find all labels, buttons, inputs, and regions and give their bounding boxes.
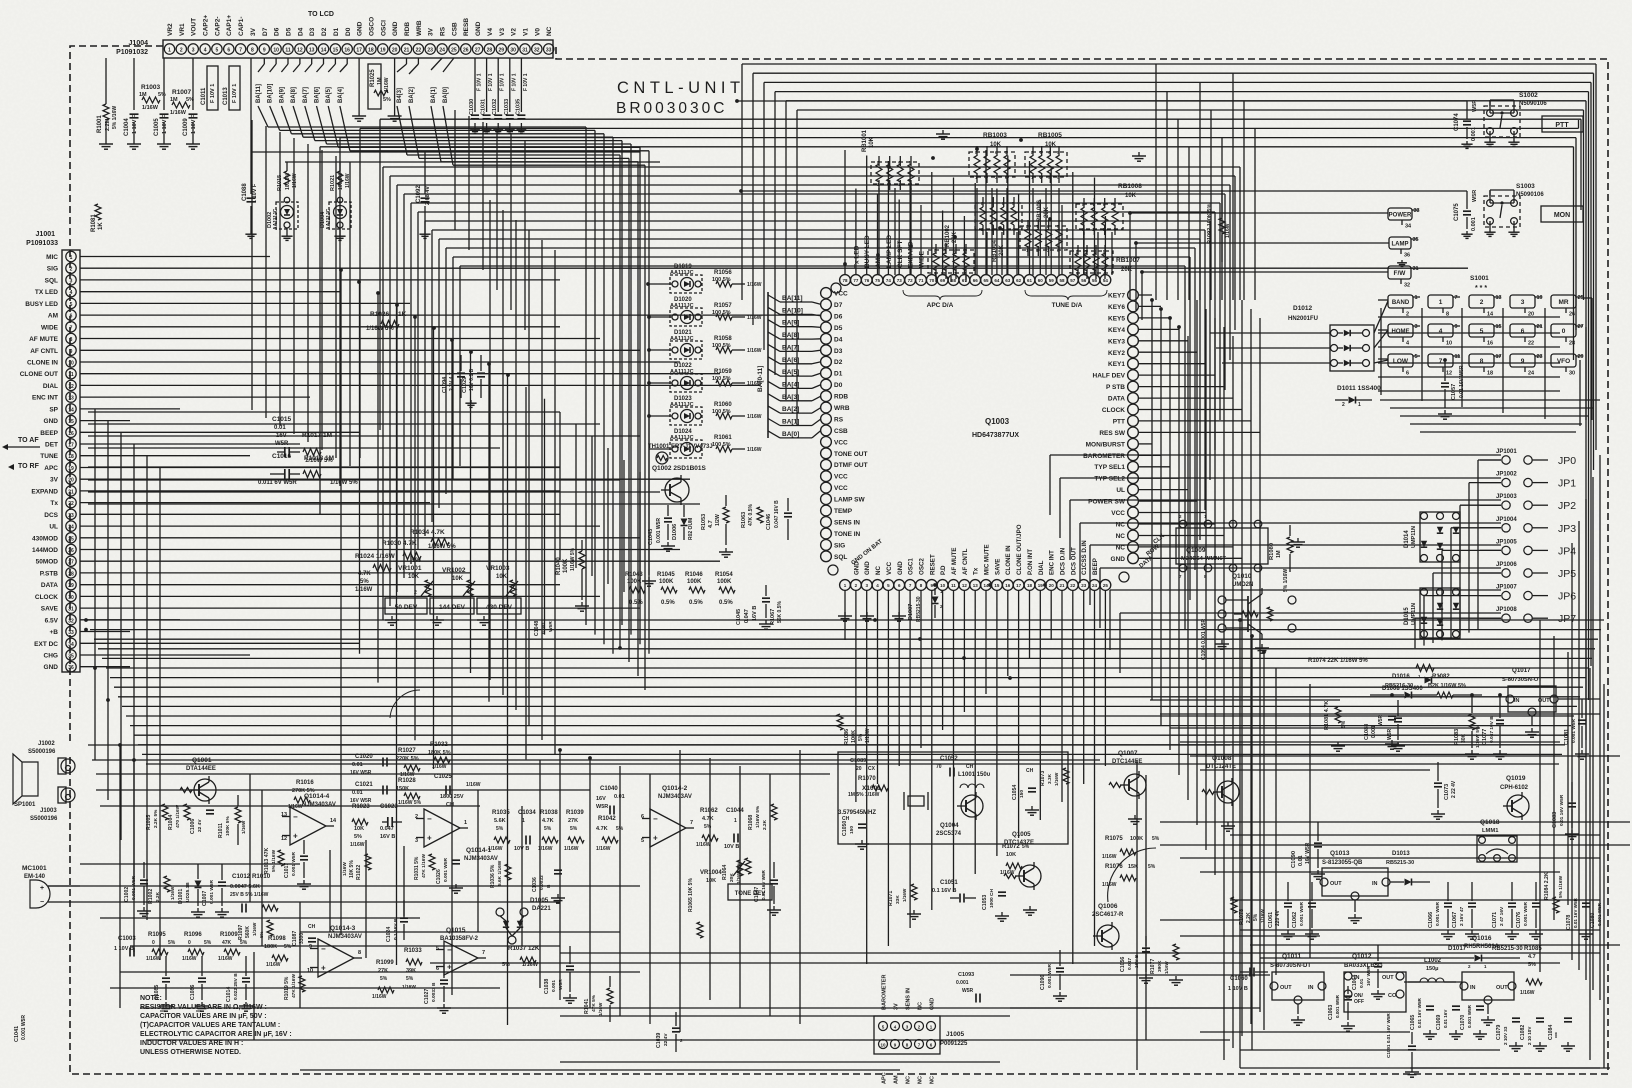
svg-text:1/16W: 1/16W: [170, 110, 187, 116]
svg-text:D1007: D1007: [908, 604, 914, 620]
wire: [524, 140, 526, 330]
svg-text:C1035: C1035: [515, 99, 521, 115]
wire: [80, 420, 130, 422]
wire: [1414, 618, 1416, 648]
svg-text:R1062: R1062: [700, 808, 718, 814]
svg-text:2: 2: [1342, 402, 1345, 408]
wire: [300, 1069, 900, 1071]
svg-text:RDB: RDB: [834, 394, 848, 401]
svg-text:CHG: CHG: [44, 653, 58, 660]
ground pin20: [394, 58, 396, 112]
wire: [340, 137, 1576, 139]
svg-text:F 10V 1: F 10V 1: [477, 73, 483, 91]
svg-text:F 10V 1: F 10V 1: [488, 73, 494, 91]
J1004 pin 31 V1: [520, 44, 530, 54]
svg-text:HALF DEV: HALF DEV: [1093, 373, 1126, 380]
svg-text:0.001 W5R: 0.001 W5R: [443, 857, 449, 882]
wire: [1251, 636, 1253, 1050]
svg-text:0.001 W5R: 0.001 W5R: [209, 879, 215, 904]
wire rails under connector: [251, 151, 640, 153]
svg-text:GND: GND: [357, 21, 364, 36]
wire: [1433, 572, 1501, 574]
svg-text:C1082: C1082: [1520, 1025, 1526, 1040]
svg-text:3: 3: [192, 48, 195, 54]
svg-text:77: 77: [853, 278, 859, 283]
svg-text:GND: GND: [44, 664, 59, 671]
wire: [88, 411, 560, 413]
svg-text:BA[8]: BA[8]: [291, 87, 297, 103]
svg-text:C1CSS D.IN: C1CSS D.IN: [1081, 540, 1088, 575]
svg-text:1: 1: [1358, 402, 1361, 408]
wire: [1595, 64, 1597, 450]
svg-text:100K: 100K: [1130, 836, 1143, 842]
Q1003 left pin: [821, 540, 832, 551]
svg-text:1/2W: 1/2W: [715, 514, 721, 526]
key 9 S1001: [1510, 354, 1535, 367]
svg-text:47K: 47K: [222, 940, 232, 946]
wire: [1150, 699, 1340, 701]
junction: [106, 698, 110, 702]
junction: [1134, 241, 1138, 245]
svg-text:NC: NC: [930, 1076, 936, 1084]
wire: [80, 537, 640, 539]
wire: [996, 590, 998, 856]
svg-text:C1057: C1057: [1451, 384, 1457, 400]
svg-text:RS: RS: [834, 416, 844, 423]
wire: [1099, 568, 1101, 628]
svg-text:58: 58: [1059, 278, 1065, 283]
svg-text:SIG: SIG: [834, 542, 845, 549]
J1004 pin 16 D0: [342, 44, 352, 54]
resistor R1021 100 5%: [337, 197, 343, 203]
wire: [866, 156, 868, 276]
junction: [1019, 138, 1023, 142]
wire: [80, 863, 300, 865]
svg-text:KEY3: KEY3: [1108, 338, 1125, 345]
wire: [931, 172, 933, 275]
svg-text:47K 5%: 47K 5%: [591, 994, 597, 1012]
svg-text:31: 31: [522, 48, 528, 54]
svg-text:BA[2]: BA[2]: [409, 87, 415, 103]
wire: [293, 138, 295, 434]
wire: [110, 987, 500, 989]
wire hop arc 2: [390, 690, 420, 718]
svg-text:TYP SEL2: TYP SEL2: [1094, 476, 1125, 483]
junction: [1168, 316, 1172, 320]
J1004 pin 24 RS: [437, 44, 447, 54]
svg-text:W5R: W5R: [596, 804, 608, 810]
svg-text:4: 4: [70, 290, 73, 296]
junction: [953, 235, 957, 239]
svg-text:23: 23: [1537, 354, 1543, 360]
wire: [383, 166, 1240, 168]
svg-text:30: 30: [1569, 371, 1575, 377]
wire: [359, 128, 361, 458]
svg-text:C1050: C1050: [842, 821, 848, 836]
svg-text:D3: D3: [834, 348, 843, 355]
Q1003 right pin: [1128, 473, 1139, 484]
wire: [1139, 443, 1152, 445]
svg-text:C1024: C1024: [386, 927, 392, 942]
svg-text:BAROMETER: BAROMETER: [882, 975, 888, 1010]
wire: [133, 760, 135, 952]
wire: [1204, 230, 1206, 510]
wire: [974, 183, 976, 275]
wire: [1578, 521, 1580, 970]
wire: [1050, 454, 1501, 456]
Q1003 top pin 54: [1100, 275, 1111, 286]
junction: [1470, 693, 1474, 697]
svg-text:C1091 0.01 16V W5R: C1091 0.01 16V W5R: [1386, 1013, 1391, 1058]
svg-text:8: 8: [1480, 358, 1484, 365]
wire: [482, 122, 484, 270]
svg-text:S1003: S1003: [1516, 183, 1535, 190]
svg-text:1: 1: [734, 818, 737, 824]
svg-text:12: 12: [1446, 371, 1452, 377]
wire: [1477, 460, 1479, 630]
svg-text:CLOCK: CLOCK: [1102, 407, 1125, 414]
svg-text:1/16W: 1/16W: [747, 348, 762, 354]
J1001 pin 23 DCS: [66, 509, 76, 519]
J1004 pin 6 CAP1+: [224, 44, 234, 54]
junction: [1150, 298, 1154, 302]
svg-text:16V B: 16V B: [380, 834, 395, 840]
Q1003 left pin: [821, 425, 832, 436]
svg-text:OUT: OUT: [1496, 985, 1508, 991]
svg-text:2 22 4V: 2 22 4V: [1451, 780, 1457, 798]
svg-text:CLK SFT: CLK SFT: [897, 241, 904, 268]
wire: [80, 525, 600, 527]
svg-text:D5: D5: [286, 27, 293, 36]
J1001 pin 35 CHG: [66, 650, 76, 660]
svg-text:R1068: R1068: [748, 815, 754, 830]
resistor network RB1003 10K: [969, 152, 1015, 177]
Q1003 right pin: [1128, 507, 1139, 518]
J1001 pin 1 MIC: [66, 251, 76, 261]
svg-text:R1056: R1056: [714, 270, 732, 276]
wire: [1180, 741, 1560, 743]
svg-text:27: 27: [475, 48, 481, 54]
svg-text:1/16W 5%: 1/16W 5%: [398, 800, 422, 806]
svg-text:1/16W 5%: 1/16W 5%: [330, 480, 358, 486]
svg-text:15: 15: [333, 48, 339, 54]
svg-text:CNTL-UNIT: CNTL-UNIT: [617, 79, 745, 97]
wire: [1599, 455, 1601, 1000]
svg-text:OUT: OUT: [1330, 881, 1342, 887]
wire: [319, 147, 321, 514]
svg-text:HD6473877UX: HD6473877UX: [972, 432, 1019, 439]
svg-text:R1016: R1016: [296, 780, 314, 786]
wire: [1187, 336, 1189, 800]
svg-text:18: 18: [1027, 583, 1033, 588]
wire: [1139, 477, 1179, 479]
svg-text:10K: 10K: [354, 826, 364, 832]
J1001 pin 25 430MOD: [66, 533, 76, 543]
wire: [119, 745, 121, 1008]
svg-text:F 10V 1: F 10V 1: [210, 84, 216, 103]
svg-text:R1076: R1076: [1105, 864, 1123, 870]
svg-text:C1023: C1023: [380, 804, 398, 810]
svg-text:CLONE IN: CLONE IN: [27, 360, 58, 367]
svg-text:1/16W: 1/16W: [1520, 990, 1535, 996]
svg-text:BA[10]: BA[10]: [782, 307, 803, 314]
svg-text:20: 20: [856, 766, 862, 772]
svg-text:C1026: C1026: [436, 869, 442, 884]
wire: [1139, 294, 1152, 296]
svg-text:13: 13: [68, 396, 74, 402]
Q1003 bottom pin 15: [992, 580, 1003, 591]
svg-text:C1006: C1006: [190, 819, 196, 834]
svg-text:−: −: [293, 813, 298, 822]
resistor R1015 100 5%: [284, 197, 290, 203]
svg-text:2: 2: [1480, 299, 1484, 306]
wire: [102, 657, 1592, 659]
svg-text:CSB: CSB: [451, 22, 458, 36]
svg-text:EM-140: EM-140: [24, 874, 46, 880]
wire: [639, 472, 641, 600]
transistor Q1004 2SC5374: [961, 795, 983, 817]
wire: [1160, 713, 1600, 715]
svg-text:34: 34: [68, 642, 74, 648]
junction: [1177, 325, 1181, 329]
svg-text:22 4V: 22 4V: [663, 1033, 669, 1046]
svg-text:TO RF: TO RF: [18, 463, 40, 470]
speaker SP1001: [13, 754, 38, 804]
key 8 S1001: [1469, 354, 1494, 367]
svg-text:R1095: R1095: [148, 932, 166, 938]
wire feed F/W: [1142, 271, 1388, 273]
wire: [80, 384, 760, 386]
connector J1001: [62, 250, 80, 672]
svg-text:+: +: [40, 885, 44, 892]
svg-text:D1: D1: [333, 27, 340, 36]
svg-text:W5R: W5R: [962, 988, 974, 994]
svg-text:2.2M: 2.2M: [105, 118, 111, 131]
wire: [80, 549, 680, 551]
svg-text:KEY1: KEY1: [1108, 361, 1125, 368]
svg-text:S5000196: S5000196: [28, 749, 56, 755]
svg-text:R1064: R1064: [722, 865, 728, 880]
wire: [1400, 415, 1588, 417]
key VFO S1001: [1551, 354, 1576, 367]
svg-text:6: 6: [1406, 371, 1409, 377]
svg-text:1/16W: 1/16W: [902, 888, 907, 902]
svg-text:R1023: R1023: [352, 804, 370, 810]
svg-text:DATA: DATA: [41, 582, 58, 589]
wire: [1139, 351, 1197, 353]
svg-text:C1073: C1073: [1444, 784, 1450, 800]
junction: [647, 381, 651, 385]
svg-text:2 10V 33: 2 10V 33: [1503, 1026, 1508, 1045]
wire: [359, 282, 361, 654]
wire: [62, 901, 560, 903]
wire: [1189, 257, 1191, 600]
J1001 pin 2 SIG: [66, 263, 76, 273]
svg-text:33: 33: [546, 48, 552, 54]
svg-text:C1016: C1016: [272, 453, 292, 460]
Q1003 top pin 56: [1078, 275, 1089, 286]
svg-text:0: 0: [152, 940, 155, 946]
svg-text:1K: 1K: [98, 222, 104, 230]
svg-text:C1063: C1063: [1328, 1005, 1334, 1020]
Q1003 bottom pin 1: [840, 580, 851, 591]
capacitors C1030-C1035: [474, 58, 476, 112]
wire: [1070, 499, 1501, 501]
svg-text:B4[3]: B4[3]: [397, 88, 403, 103]
svg-text:1/16W: 1/16W: [747, 282, 762, 288]
wire: [1090, 544, 1501, 546]
svg-text:NC: NC: [906, 1076, 912, 1084]
wire: [459, 266, 461, 466]
svg-text:C1009: C1009: [183, 118, 189, 136]
Q1003 bottom pin 20: [1046, 580, 1057, 591]
svg-text:74: 74: [886, 278, 892, 283]
wire: [1451, 527, 1501, 529]
wire: [1139, 363, 1206, 365]
junction: [998, 226, 1002, 230]
wire: [1139, 500, 1197, 502]
Q1003 corner pins: [831, 283, 841, 293]
wire: [1224, 194, 1226, 390]
svg-text:BA[11]: BA[11]: [256, 84, 262, 103]
svg-text:BA[5]: BA[5]: [326, 87, 332, 103]
svg-text:HOME: HOME: [1392, 329, 1410, 335]
junction: [647, 348, 651, 352]
svg-text:0.5%: 0.5%: [629, 600, 643, 606]
wire: [1239, 167, 1241, 300]
wire: [1010, 1007, 1240, 1009]
svg-text:13: 13: [309, 48, 315, 54]
svg-text:R1022: R1022: [356, 865, 362, 880]
svg-text:WIDE: WIDE: [41, 324, 59, 331]
wire: [414, 317, 416, 740]
key 4 S1001: [1428, 324, 1453, 337]
svg-text:OFF: OFF: [1354, 999, 1364, 1005]
svg-text:4: 4: [1439, 328, 1443, 335]
svg-text:R1038: R1038: [540, 810, 558, 816]
wire: [80, 314, 820, 316]
wire feed LAMP: [1136, 242, 1389, 244]
wire: [909, 167, 911, 276]
svg-text:C1044: C1044: [726, 808, 744, 814]
wire: [118, 696, 1580, 698]
svg-text:6.5V: 6.5V: [45, 617, 59, 624]
svg-text:1/16W: 1/16W: [372, 994, 387, 1000]
svg-text:UNLESS OTHERWISE NOTED.: UNLESS OTHERWISE NOTED.: [140, 1049, 241, 1056]
svg-text:22 4V: 22 4V: [197, 819, 203, 832]
svg-text:BA033XLB5G: BA033XLB5G: [1344, 963, 1383, 969]
J1004 pin 20 GND: [389, 44, 399, 54]
svg-text:P.STB: P.STB: [40, 570, 59, 577]
svg-text:F 10V 1: F 10V 1: [500, 73, 506, 91]
wire: [1139, 512, 1206, 514]
wire: [1010, 974, 1270, 976]
svg-text:BUSY LED: BUSY LED: [25, 301, 58, 308]
svg-text:1/16W: 1/16W: [696, 842, 711, 848]
svg-text:VCC: VCC: [886, 561, 893, 575]
svg-text:Q1007: Q1007: [1118, 750, 1138, 757]
svg-text:24: 24: [1092, 583, 1098, 588]
J1001 pin 34 EXT DC: [66, 638, 76, 648]
junction: [1159, 307, 1163, 311]
svg-text:5%: 5%: [383, 97, 391, 103]
junction: [647, 414, 651, 418]
svg-text:19: 19: [68, 466, 74, 472]
svg-text:18: 18: [68, 454, 74, 460]
svg-text:VCC: VCC: [834, 474, 848, 481]
svg-text:1/16W: 1/16W: [466, 782, 481, 788]
svg-text:AA111JC: AA111JC: [273, 208, 279, 230]
wire: [1232, 336, 1234, 1048]
wire: [377, 293, 379, 682]
svg-text:NJM3403AV: NJM3403AV: [302, 802, 336, 808]
svg-text:R02 OUM: R02 OUM: [688, 518, 694, 540]
J1001 pin 24 UL: [66, 521, 76, 531]
svg-text:150: 150: [849, 826, 855, 834]
svg-text:11: 11: [285, 48, 291, 54]
svg-text:144MOD: 144MOD: [32, 547, 58, 554]
Q1003 left pin: [821, 414, 832, 425]
wire: [507, 375, 509, 1025]
J1004 pin 2 VR1: [176, 44, 186, 54]
svg-text:2.2K 5%: 2.2K 5%: [153, 809, 159, 828]
wire: [417, 212, 419, 550]
svg-text:ENC INT: ENC INT: [32, 395, 58, 402]
svg-text:1/16W: 1/16W: [218, 956, 233, 962]
wire: [1050, 167, 1052, 276]
wire: [1139, 328, 1179, 330]
svg-text:D7: D7: [262, 27, 269, 36]
wire: [1259, 318, 1261, 1012]
svg-text:1: 1: [70, 255, 73, 261]
svg-text:C1053: C1053: [982, 895, 988, 910]
wire rails bottom right extra: [1160, 821, 1630, 823]
svg-text:27: 27: [1578, 324, 1584, 330]
svg-text:J1002: J1002: [38, 741, 55, 747]
J1001 pin 12 DIAL: [66, 380, 76, 390]
svg-text:8: 8: [70, 337, 73, 343]
J1001 pin 3 SQL: [66, 275, 76, 285]
svg-text:22: 22: [416, 48, 422, 54]
Q1003 top pin 70: [926, 275, 937, 286]
Q1003 left pin: [821, 528, 832, 539]
svg-text:C1002: C1002: [124, 887, 130, 902]
Q1003 right pin: [1128, 439, 1139, 450]
grounds under DEV boxes: [391, 616, 393, 620]
wire: [1018, 590, 1020, 838]
svg-text:D1006: D1006: [672, 524, 678, 540]
wire: [453, 256, 1190, 258]
wires RB networks to IC pins: [878, 188, 880, 275]
J1001 pin 4 TX LED: [66, 287, 76, 297]
junction: [118, 743, 122, 747]
wire: [1567, 652, 1569, 905]
svg-text:S-8123055-QB: S-8123055-QB: [1322, 860, 1363, 866]
svg-text:P STB: P STB: [1106, 384, 1125, 391]
wire: [477, 790, 479, 932]
svg-text:Q1004: Q1004: [940, 822, 959, 829]
wire: [1210, 110, 1212, 300]
svg-text:JP3: JP3: [1558, 523, 1576, 535]
resistor network RB1002 20K: [928, 250, 974, 273]
svg-text:C1090: C1090: [1291, 851, 1297, 868]
wire: [349, 162, 351, 466]
wire: [1254, 128, 1256, 300]
J1001 pin 8 AF MUTE: [66, 333, 76, 343]
svg-text:76: 76: [864, 278, 870, 283]
svg-text:7: 7: [1455, 295, 1458, 301]
svg-text:NC: NC: [875, 566, 882, 575]
